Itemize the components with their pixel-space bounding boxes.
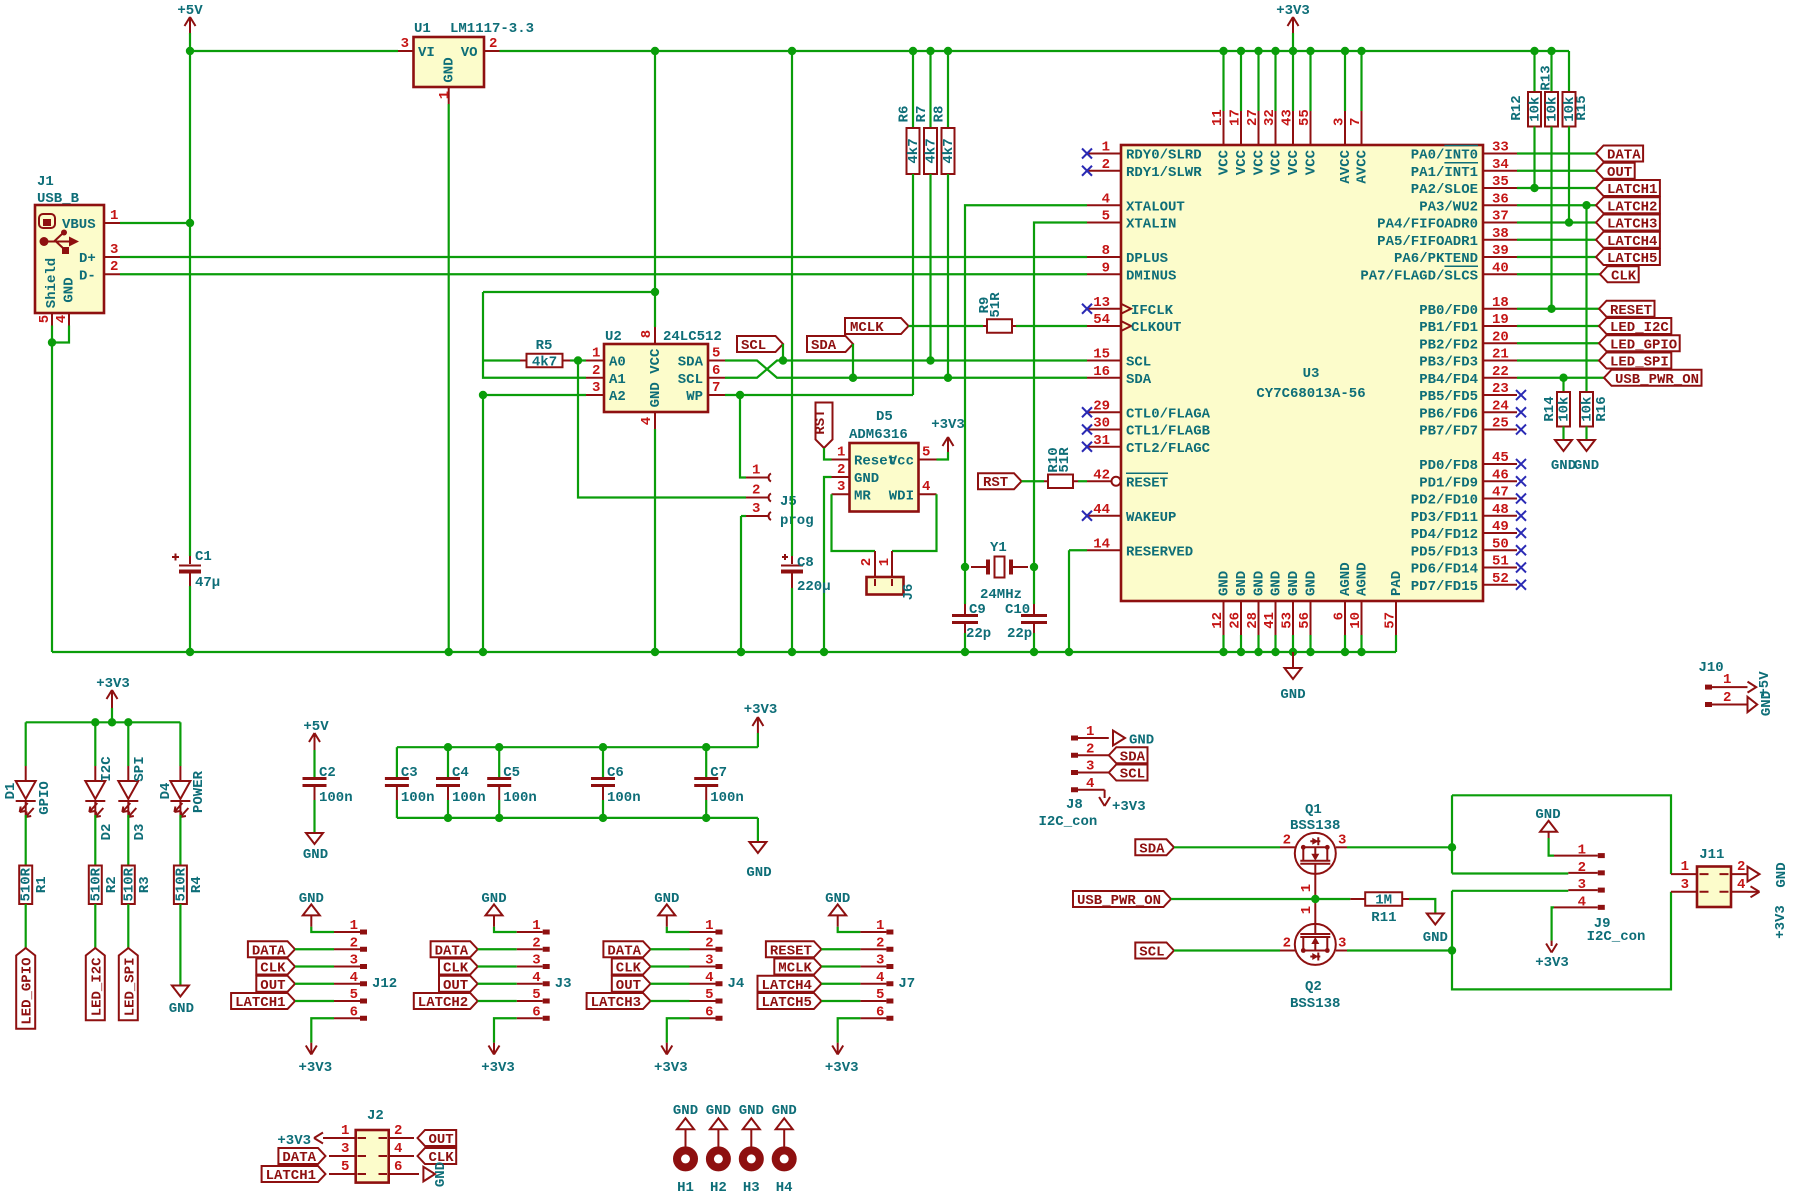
Q1 pin 2 gate: [1280, 846, 1295, 848]
svg-text:USB_PWR_ON: USB_PWR_ON: [1077, 893, 1161, 909]
U3 pin 50 PD5/FD13: [1483, 549, 1517, 551]
svg-text:24MHz: 24MHz: [980, 587, 1022, 603]
label LED_GPIO: [16, 948, 35, 1029]
U3 pin 54 CLKOUT: [1087, 325, 1121, 327]
connector J5 prog pin 1: [740, 395, 746, 478]
svg-text:40: 40: [1492, 260, 1509, 276]
svg-text:1: 1: [705, 918, 713, 934]
svg-text:+3V3: +3V3: [277, 1133, 311, 1149]
svg-text:CTL0/FLAGA: CTL0/FLAGA: [1126, 406, 1211, 422]
svg-text:PA7/FLAGD/SLCS: PA7/FLAGD/SLCS: [1360, 268, 1478, 284]
svg-text:GND: GND: [746, 865, 771, 881]
J9 pin 2: [1568, 872, 1598, 874]
svg-text:PD4/FD12: PD4/FD12: [1411, 527, 1478, 543]
svg-text:3: 3: [592, 380, 600, 396]
svg-text:Y1: Y1: [990, 540, 1007, 556]
wire CLK to J3: [478, 965, 517, 967]
svg-text:PA2/SLOE: PA2/SLOE: [1411, 182, 1478, 198]
label LED_I2C: [1599, 318, 1671, 334]
J2 pin 6 GND: [389, 1173, 419, 1175]
svg-text:1: 1: [1086, 724, 1094, 740]
U2 pin 5 SDA: [708, 360, 725, 362]
svg-text:CY7C68013A-56: CY7C68013A-56: [1256, 386, 1365, 402]
svg-text:2: 2: [837, 462, 845, 478]
wire A2 to ground: [483, 395, 586, 652]
svg-text:10k: 10k: [1545, 97, 1561, 122]
svg-text:3: 3: [341, 1141, 349, 1157]
U3 pin 38 PA5/FIFOADR1: [1483, 239, 1517, 241]
svg-text:LATCH5: LATCH5: [1607, 251, 1657, 267]
svg-text:D5: D5: [876, 409, 893, 425]
wire R11 to gnd: [1409, 899, 1435, 914]
U3 pin 24 PB6/FD6: [1483, 411, 1517, 413]
svg-text:220µ: 220µ: [797, 579, 831, 595]
led D4 arrows: [174, 803, 188, 817]
svg-text:Vcc: Vcc: [889, 454, 914, 470]
label CLK: [439, 959, 478, 975]
svg-text:PA0/INT0: PA0/INT0: [1411, 148, 1478, 164]
svg-text:510R: 510R: [173, 867, 189, 901]
J7 pin 4: [860, 983, 886, 985]
svg-text:8: 8: [639, 330, 655, 338]
svg-text:DATA: DATA: [282, 1150, 316, 1166]
U3 pin 23 PB5/FD5: [1483, 394, 1517, 396]
svg-text:RST: RST: [813, 409, 829, 434]
svg-text:2: 2: [705, 935, 713, 951]
svg-text:2: 2: [1086, 741, 1094, 757]
connector J5 pin 3: [740, 516, 742, 652]
svg-text:2: 2: [1578, 860, 1586, 876]
svg-text:31: 31: [1093, 433, 1110, 449]
svg-text:VBUS: VBUS: [62, 217, 96, 233]
U3 pin 13 IFCLK: [1087, 308, 1121, 310]
svg-text:GND: GND: [1280, 687, 1305, 703]
led D2: [94, 722, 96, 766]
svg-text:LED_GPIO: LED_GPIO: [1610, 337, 1677, 353]
svg-text:100n: 100n: [710, 790, 744, 806]
svg-text:SDA: SDA: [1120, 749, 1146, 765]
svg-text:VCC: VCC: [1252, 149, 1268, 175]
svg-text:LATCH1: LATCH1: [266, 1168, 316, 1184]
svg-text:LED_GPIO: LED_GPIO: [20, 957, 36, 1024]
svg-text:28: 28: [1245, 612, 1261, 629]
svg-text:PD0/FD8: PD0/FD8: [1419, 458, 1478, 474]
svg-text:H4: H4: [776, 1180, 793, 1196]
svg-text:100n: 100n: [607, 790, 641, 806]
U2 pin 3 A2: [586, 394, 604, 396]
svg-text:R4: R4: [189, 876, 205, 893]
wire D+ to U3 DPLUS: [120, 256, 1087, 258]
U3 pin 10 AGND: [1361, 601, 1363, 635]
U3 pin 6 AGND: [1344, 601, 1346, 635]
U3 pin 29 CTL0/FLAGA: [1087, 411, 1121, 413]
wire CLK to J4: [651, 965, 690, 967]
J8 pin 3 SCL: [1071, 770, 1078, 775]
svg-text:C2: C2: [319, 765, 336, 781]
svg-text:LATCH1: LATCH1: [1607, 182, 1657, 198]
wire net LATCH4: [1517, 239, 1596, 241]
svg-text:LATCH1: LATCH1: [235, 995, 285, 1011]
svg-text:CTL1/FLAGB: CTL1/FLAGB: [1126, 424, 1211, 440]
svg-text:5: 5: [1102, 209, 1110, 225]
wire U2 GND to rail: [654, 429, 656, 652]
J9 pin 1: [1549, 838, 1554, 856]
svg-text:R6: R6: [897, 106, 913, 123]
svg-text:48: 48: [1492, 502, 1509, 518]
U3 pin 32 VCC: [1274, 51, 1276, 111]
wire A1 tie high: [483, 291, 655, 293]
led D1: [25, 722, 27, 766]
svg-text:C1: C1: [195, 549, 212, 565]
J11 pin 2 GND: [1731, 873, 1748, 875]
svg-text:XTALIN: XTALIN: [1126, 217, 1176, 233]
svg-text:GND: GND: [706, 1103, 731, 1119]
svg-text:PB2/FD2: PB2/FD2: [1419, 337, 1478, 353]
U3 pin 18 PB0/FD0: [1483, 308, 1517, 310]
junction SDA: [849, 374, 857, 382]
svg-text:RESET: RESET: [1610, 303, 1652, 319]
wire D4 to gnd: [179, 904, 181, 986]
U3 pin 51 PD6/FD14: [1483, 567, 1517, 569]
wire +5V to rail: [189, 33, 191, 51]
svg-text:I2C: I2C: [99, 756, 115, 782]
J4 pin 3: [690, 966, 716, 968]
svg-text:WP: WP: [686, 389, 703, 405]
junction gnd rail: [1030, 648, 1038, 656]
svg-text:1: 1: [1723, 672, 1731, 688]
capacitor C1 47u: [189, 556, 191, 564]
label SCL to Q2: [1135, 943, 1174, 959]
svg-text:PD7/FD15: PD7/FD15: [1411, 579, 1478, 595]
J2 pin 1 +3V3: [323, 1137, 356, 1139]
svg-text:VCC: VCC: [1217, 149, 1233, 175]
svg-text:4: 4: [54, 315, 70, 323]
svg-text:GND: GND: [1129, 733, 1154, 749]
svg-text:PD3/FD11: PD3/FD11: [1411, 510, 1478, 526]
svg-text:C9: C9: [969, 602, 986, 618]
U3 pin 11 VCC: [1222, 51, 1224, 111]
svg-text:3: 3: [532, 953, 540, 969]
wire A1 up to VCC: [483, 361, 586, 378]
svg-text:+3V3: +3V3: [1535, 955, 1569, 971]
svg-text:36: 36: [1492, 191, 1509, 207]
svg-text:1: 1: [110, 208, 118, 224]
svg-text:+3V3: +3V3: [931, 417, 965, 433]
svg-text:1: 1: [876, 918, 884, 934]
svg-text:30: 30: [1093, 416, 1110, 432]
svg-text:7: 7: [712, 380, 720, 396]
svg-text:22p: 22p: [966, 626, 991, 642]
U2 pin 1 A0: [586, 360, 604, 362]
svg-text:57: 57: [1383, 612, 1399, 629]
svg-text:47µ: 47µ: [195, 575, 220, 591]
wire VBUS vertical to C1: [189, 51, 191, 556]
svg-text:GND: GND: [433, 1162, 449, 1187]
svg-text:R16: R16: [1594, 396, 1610, 421]
wire net LED_I2C: [1517, 325, 1599, 327]
wire OUT to J12: [295, 983, 334, 985]
wire +3V3 to rail: [1292, 33, 1294, 51]
U3 pin 26 GND: [1240, 601, 1242, 635]
label RST vertical: [816, 403, 833, 449]
svg-text:1: 1: [1299, 906, 1315, 914]
svg-text:4k7: 4k7: [906, 138, 922, 163]
svg-text:C5: C5: [503, 765, 520, 781]
svg-text:J10: J10: [1699, 660, 1724, 676]
power +3V3 at D5: [937, 452, 949, 460]
U3 pin 35 PA2/SLOE: [1483, 187, 1517, 189]
label SCL: [737, 336, 783, 352]
J11 pin 1: [1671, 873, 1697, 875]
svg-text:D-: D-: [79, 269, 96, 285]
J2 pin 3 DATA: [329, 1155, 356, 1157]
svg-text:GND: GND: [739, 1103, 764, 1119]
wire 5V rail to U1: [190, 50, 398, 52]
resistor R2 510R: [94, 815, 96, 866]
svg-text:PB4/FD4: PB4/FD4: [1419, 372, 1478, 388]
J7 +3V3: [838, 1018, 861, 1042]
svg-text:5: 5: [712, 346, 720, 362]
wire bypass rail bottom: [397, 817, 758, 819]
svg-text:AVCC: AVCC: [1338, 149, 1354, 183]
J7 pin 5: [860, 1000, 886, 1002]
ground R14: [1555, 440, 1572, 451]
label OUT: [256, 976, 295, 992]
svg-text:U1: U1: [414, 21, 431, 37]
J3 +3V3: [494, 1018, 517, 1042]
U3 pin 57 PAD: [1395, 601, 1397, 635]
svg-text:I2C_con: I2C_con: [1039, 814, 1098, 830]
svg-text:PB6/FD6: PB6/FD6: [1419, 406, 1478, 422]
svg-text:C8: C8: [797, 555, 814, 571]
svg-text:VO: VO: [461, 45, 478, 61]
svg-text:42: 42: [1093, 467, 1110, 483]
U3 pin 16 SDA: [1087, 377, 1121, 379]
svg-text:11: 11: [1210, 109, 1226, 126]
svg-text:PA6/PKTEND: PA6/PKTEND: [1394, 251, 1478, 267]
svg-text:OUT: OUT: [1607, 165, 1632, 181]
wire U1 GND down to ground rail: [448, 104, 450, 652]
wire net LED_SPI: [1517, 359, 1599, 361]
svg-text:+3V3: +3V3: [298, 1060, 332, 1076]
J9 +3V3: [1552, 907, 1554, 940]
wire Q1.3 to J11: [1347, 846, 1452, 848]
junction gnd rail: [445, 648, 453, 656]
svg-text:RDY0/SLRD: RDY0/SLRD: [1126, 148, 1202, 164]
svg-text:GND: GND: [1217, 571, 1233, 596]
label MCLK: [845, 318, 909, 334]
D5 pin 2 GND: [832, 476, 850, 478]
junction gnd rail: [737, 648, 745, 656]
svg-text:2: 2: [859, 558, 875, 566]
svg-text:J11: J11: [1699, 847, 1724, 863]
svg-text:J1: J1: [37, 174, 54, 190]
junction J1 gnd: [48, 338, 56, 346]
J3 pin 5: [517, 1000, 543, 1002]
J2 pin 4 CLK: [389, 1155, 414, 1157]
Q2 pin 1: [1314, 899, 1316, 924]
U3 pin 46 PD1/FD9: [1483, 480, 1517, 482]
svg-text:R8: R8: [932, 106, 948, 123]
svg-text:J2: J2: [367, 1108, 384, 1124]
svg-text:H1: H1: [677, 1180, 694, 1196]
U3 pin 34 PA1/INT1: [1483, 170, 1517, 172]
svg-text:50: 50: [1492, 536, 1509, 552]
svg-text:OUT: OUT: [260, 978, 285, 994]
capacitor C2 100n: [313, 750, 315, 777]
svg-text:LATCH4: LATCH4: [762, 978, 812, 994]
wire J1 shield+gnd: [51, 326, 53, 343]
svg-text:VCC: VCC: [1269, 149, 1285, 175]
label RESET: [1599, 301, 1655, 317]
svg-text:PD1/FD9: PD1/FD9: [1419, 475, 1478, 491]
svg-text:DMINUS: DMINUS: [1126, 268, 1176, 284]
svg-text:VCC: VCC: [1304, 149, 1320, 175]
svg-text:4: 4: [1737, 877, 1745, 893]
U3 pin 22 PB4/FD4: [1483, 377, 1517, 379]
U3 pin 56 GND: [1310, 601, 1312, 635]
junction led rail: [108, 718, 116, 726]
J12 +3V3: [311, 1018, 334, 1042]
svg-text:6: 6: [705, 1004, 713, 1020]
U3 pin 5 XTALIN: [1087, 222, 1121, 224]
U1 pin 1 GND: [448, 87, 450, 104]
svg-text:35: 35: [1492, 174, 1509, 190]
svg-text:AGND: AGND: [1338, 562, 1354, 596]
svg-text:5: 5: [341, 1159, 349, 1175]
J10 pin 1 +5V: [1705, 685, 1712, 690]
U3 pin 45 PD0/FD8: [1483, 463, 1517, 465]
wire WDI to J6 pin1: [892, 494, 937, 551]
svg-text:LED_SPI: LED_SPI: [122, 957, 138, 1016]
svg-text:2: 2: [1283, 833, 1291, 849]
svg-text:R3: R3: [137, 876, 153, 893]
J12 pin 6: [334, 1017, 360, 1019]
svg-text:DATA: DATA: [435, 943, 469, 959]
svg-text:23: 23: [1492, 381, 1509, 397]
svg-text:A0: A0: [609, 355, 626, 371]
J1 pin 4 GND: [68, 313, 70, 326]
svg-text:41: 41: [1262, 612, 1278, 629]
U2 pin 4 GND: [654, 412, 656, 429]
svg-text:2: 2: [1283, 936, 1291, 952]
svg-text:GND: GND: [854, 471, 879, 487]
label LATCH4: [1596, 232, 1660, 248]
label DATA: [603, 941, 650, 957]
svg-text:H2: H2: [710, 1180, 727, 1196]
svg-text:VCC: VCC: [1286, 149, 1302, 175]
J4 pin 6: [690, 1017, 716, 1019]
capacitor C3 100n: [396, 747, 398, 777]
svg-text:+3V3: +3V3: [1276, 3, 1310, 19]
label MCLK: [774, 959, 821, 975]
svg-text:2: 2: [1737, 859, 1745, 875]
U3 pin 47 PD2/FD10: [1483, 498, 1517, 500]
svg-text:4: 4: [876, 970, 884, 986]
svg-text:XTALOUT: XTALOUT: [1126, 199, 1185, 215]
wire RESERVED to gnd: [1069, 549, 1087, 551]
svg-text:19: 19: [1492, 312, 1509, 328]
wire led rail: [26, 721, 181, 723]
svg-text:27: 27: [1245, 109, 1261, 126]
capacitor C7 100n: [702, 743, 710, 751]
svg-text:CLK: CLK: [260, 961, 286, 977]
svg-text:CTL2/FLAGC: CTL2/FLAGC: [1126, 441, 1211, 457]
svg-text:WAKEUP: WAKEUP: [1126, 510, 1176, 526]
wire net DATA: [1517, 152, 1596, 154]
svg-text:4k7: 4k7: [924, 138, 940, 163]
J9 pin 4: [1554, 906, 1598, 908]
svg-text:R7: R7: [914, 106, 930, 123]
svg-text:4: 4: [705, 970, 713, 986]
label LATCH3: [1596, 215, 1660, 231]
wire ground rail: [52, 651, 1396, 653]
U1 pin 2 VO: [484, 50, 500, 52]
label RESET: [766, 941, 822, 957]
svg-text:100n: 100n: [319, 790, 353, 806]
wire to LED_I2C: [94, 904, 96, 948]
wire XTALOUT: [965, 205, 1087, 604]
wire net LED_GPIO: [1517, 342, 1599, 344]
wire net LATCH5: [1517, 256, 1596, 258]
junction gnd rail: [961, 648, 969, 656]
svg-text:47: 47: [1492, 485, 1509, 501]
svg-text:1: 1: [1102, 140, 1110, 156]
svg-text:J5: J5: [780, 494, 797, 510]
svg-text:2: 2: [592, 363, 600, 379]
svg-text:+5V: +5V: [177, 3, 203, 19]
svg-text:6: 6: [1332, 612, 1348, 620]
svg-text:1: 1: [837, 445, 845, 461]
connector J5 pin 2: [578, 361, 746, 498]
U3 pin 9 DMINUS: [1087, 273, 1121, 275]
wire SCL label tail: [782, 344, 784, 361]
svg-text:VI: VI: [418, 45, 435, 61]
U3 pin 39 PA6/PKTEND: [1483, 256, 1517, 258]
svg-text:PAD: PAD: [1389, 571, 1405, 596]
wire OUT to J4: [651, 983, 690, 985]
svg-text:100n: 100n: [401, 790, 435, 806]
label LATCH1: [231, 993, 295, 1009]
wire SCL crossover: [725, 361, 1087, 378]
svg-text:25: 25: [1492, 416, 1509, 432]
J12 pin 2: [334, 948, 360, 950]
svg-text:LATCH3: LATCH3: [591, 995, 641, 1011]
svg-text:1: 1: [341, 1123, 349, 1139]
svg-text:PA4/FIFOADR0: PA4/FIFOADR0: [1377, 217, 1478, 233]
svg-text:10k: 10k: [1580, 397, 1596, 422]
svg-text:J12: J12: [372, 976, 397, 992]
label LED_SPI: [119, 948, 138, 1020]
label USB_PWR_ON: [1073, 891, 1171, 907]
wire SCL net to J11 pin3: [1452, 891, 1671, 990]
svg-text:4: 4: [532, 970, 540, 986]
svg-text:GND: GND: [1269, 571, 1285, 596]
svg-text:1: 1: [1578, 843, 1586, 859]
svg-text:LED_I2C: LED_I2C: [89, 957, 105, 1016]
junction J5.3 gnd: [737, 648, 745, 656]
svg-text:34: 34: [1492, 157, 1509, 173]
svg-text:Shield: Shield: [44, 258, 60, 308]
junction A0/R5/J5: [574, 356, 582, 364]
J4 pin 5: [690, 1000, 716, 1002]
label LATCH3: [587, 993, 651, 1009]
D5 pin 5 Vcc: [919, 459, 937, 461]
svg-text:33: 33: [1492, 140, 1509, 156]
junction +5V: [186, 47, 194, 55]
wire LATCH1 to J12: [295, 1000, 334, 1002]
svg-text:SCL: SCL: [1120, 767, 1145, 783]
